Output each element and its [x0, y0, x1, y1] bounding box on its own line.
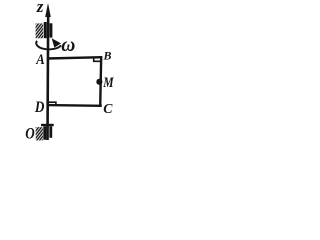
svg-text:M: M: [102, 73, 114, 90]
wire: z-axis shaft AO: [46, 10, 49, 140]
svg-text:A: A: [35, 52, 44, 68]
svg-text:ω: ω: [61, 35, 75, 56]
bottom bearing right sleeve bar: [49, 126, 52, 138]
bead M on rod BC: [96, 79, 102, 85]
svg-text:D: D: [34, 99, 45, 116]
svg-text:C: C: [103, 101, 113, 116]
svg-text:B: B: [103, 49, 112, 63]
z-axis arrowhead: [45, 3, 51, 17]
wire: rod A-B: [47, 57, 102, 58]
bottom bearing cap line: [41, 124, 54, 126]
top bearing left sleeve bar: [44, 22, 47, 38]
svg-text:z: z: [36, 0, 44, 16]
svg-text:O: O: [25, 126, 35, 143]
bottom bearing left sleeve bar: [43, 126, 46, 139]
right-angle marker at D: [49, 102, 56, 105]
top bearing hatching: [36, 23, 44, 38]
bottom bearing hatching: [36, 127, 43, 140]
right-angle marker at B: [94, 58, 101, 62]
wire: rod D-C: [47, 104, 102, 107]
rotation arrowhead: [52, 38, 61, 47]
top bearing right sleeve bar: [50, 23, 53, 37]
wire: rod B-C: [100, 56, 101, 106]
rotation arrow omega (elliptical arc): [36, 41, 61, 50]
